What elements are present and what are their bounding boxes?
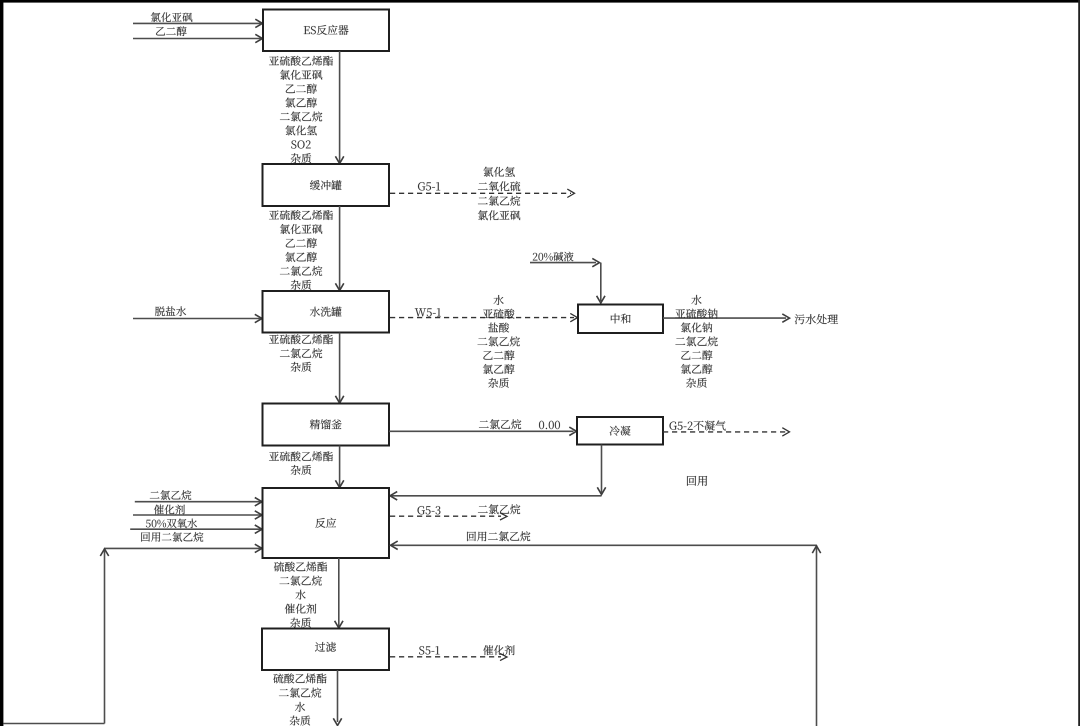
vessel 冷凝 box [577,417,663,445]
label G5-3 [418,506,441,514]
input stream arrow 50%双氧水 [130,525,262,533]
input stream arrow 脱盐水 [133,314,262,322]
label G5-1 [418,182,440,190]
wire 缓冲罐 to 水洗罐 [335,206,343,291]
recycle stream right vertical riser [812,545,820,726]
value label 0.00 [539,421,560,429]
input stream arrow 二氯乙烷 [135,498,262,506]
input stream 20%碱液 horizontal arrow [530,258,600,266]
recycle stream 回用二氯乙烷 horizontal [391,541,817,549]
label 二氯乙烷 input [150,490,192,500]
vent stream dashed arrow G5-3 [390,513,507,520]
label 回用 [687,476,707,486]
solids stream dashed arrow S5-1 [390,653,507,660]
vessel 反应 box [263,488,390,558]
vessel 过滤 box [262,629,389,671]
wire 冷凝 condensate down [597,445,605,495]
wire 精馏釜 to 反应 [335,446,343,488]
label 氯化亚砜 [151,12,193,22]
label 乙二醇 [156,26,187,36]
stream composition list below 缓冲罐 [269,210,333,290]
waste stream dashed arrow W5-1 [390,313,578,321]
label 脱盐水 [155,306,186,316]
recycle loop bottom wire [3,723,104,725]
label S5-1 [419,646,439,654]
label 催化剂 input [154,505,185,515]
wire ES反应器 to 缓冲罐 [335,51,343,164]
vessel ES反应器 box [263,10,389,52]
vessel 精馏釜 box [263,404,390,446]
page left border bar [0,0,3,726]
waste composition list W5-1 [478,295,520,388]
label 二氯乙烷 on condenser stream [479,419,521,429]
vent stream dashed arrow G5-2不凝气 [663,428,790,436]
label 20%碱液 [533,252,574,262]
stream composition list below 水洗罐 [269,334,333,372]
wire 20%碱液 drop into 中和 [597,263,605,303]
label 50%双氧水 [146,519,197,528]
label 二氯乙烷 vent G5-3 [478,504,520,514]
outlet composition list after 中和 [675,295,717,388]
wire 水洗罐 to 精馏釜 [335,333,343,404]
vessel 中和 box [578,305,663,334]
label W5-1 [415,308,441,316]
recycle loop left vertical riser [100,548,108,723]
page right border line [1078,0,1080,726]
outlet stream arrow to 污水处理 [663,314,790,322]
stream arrow 精馏釜 to 冷凝 [389,427,577,435]
wire condensate to 反应 right side [390,492,602,500]
label 污水处理 [795,314,838,324]
vent composition list G5-1 [478,167,520,220]
vessel 缓冲罐 box [263,164,390,206]
wire 过滤 outlet down [333,670,341,726]
input stream arrow 乙二醇 [133,34,263,42]
vent stream dashed arrow G5-1 [390,189,575,197]
stream composition list below 过滤 [273,673,326,725]
label 回用二氯乙烷 recycle [467,531,530,541]
input stream arrow 催化剂 [133,511,262,519]
stream composition list below 反应 [274,562,327,628]
input stream arrow 氯化亚砜 [133,19,263,27]
label 催化剂 solids [483,645,514,655]
label 回用二氯乙烷 input [141,532,203,542]
stream composition list below 精馏釜 [269,451,333,475]
vessel 水洗罐 box [263,291,390,333]
input stream arrow 回用二氯乙烷 [105,544,263,552]
page top border bar [0,0,1080,3]
label G5-2不凝气 [669,420,725,430]
wire 反应 to 过滤 [335,558,343,628]
stream composition list below ES反应器 [269,56,333,163]
